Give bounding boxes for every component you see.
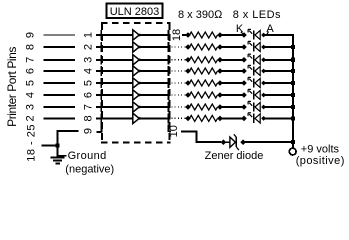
svg-text:8: 8 xyxy=(83,115,95,121)
svg-text:+9 volts: +9 volts xyxy=(301,144,340,156)
svg-text:8 x 390Ω: 8 x 390Ω xyxy=(178,9,223,21)
svg-text:(negative): (negative) xyxy=(65,163,114,175)
svg-text:6: 6 xyxy=(25,68,37,74)
svg-text:6: 6 xyxy=(83,92,95,98)
svg-text:Zener diode: Zener diode xyxy=(205,150,264,162)
svg-text:8: 8 xyxy=(25,44,37,50)
svg-text:4: 4 xyxy=(83,68,95,74)
svg-text:2: 2 xyxy=(83,44,95,50)
svg-text:ULN 2803: ULN 2803 xyxy=(110,6,160,18)
svg-text:18 - 25: 18 - 25 xyxy=(26,124,38,162)
svg-text:4: 4 xyxy=(25,92,37,98)
svg-text:1: 1 xyxy=(83,32,95,38)
svg-text:Printer Port Pins: Printer Port Pins xyxy=(5,47,19,127)
svg-text:10: 10 xyxy=(168,125,180,137)
svg-text:2: 2 xyxy=(25,115,37,121)
svg-text:7: 7 xyxy=(25,57,37,63)
svg-text:18: 18 xyxy=(171,29,183,41)
svg-text:9: 9 xyxy=(25,32,37,38)
svg-text:(positive): (positive) xyxy=(296,155,345,167)
svg-text:8 x LEDs: 8 x LEDs xyxy=(233,9,281,21)
svg-text:3: 3 xyxy=(25,104,37,110)
svg-text:Ground: Ground xyxy=(68,150,107,162)
svg-text:5: 5 xyxy=(25,80,37,86)
svg-text:5: 5 xyxy=(83,80,95,86)
svg-text:3: 3 xyxy=(83,57,95,63)
svg-text:9: 9 xyxy=(83,128,95,134)
svg-text:7: 7 xyxy=(83,104,95,110)
